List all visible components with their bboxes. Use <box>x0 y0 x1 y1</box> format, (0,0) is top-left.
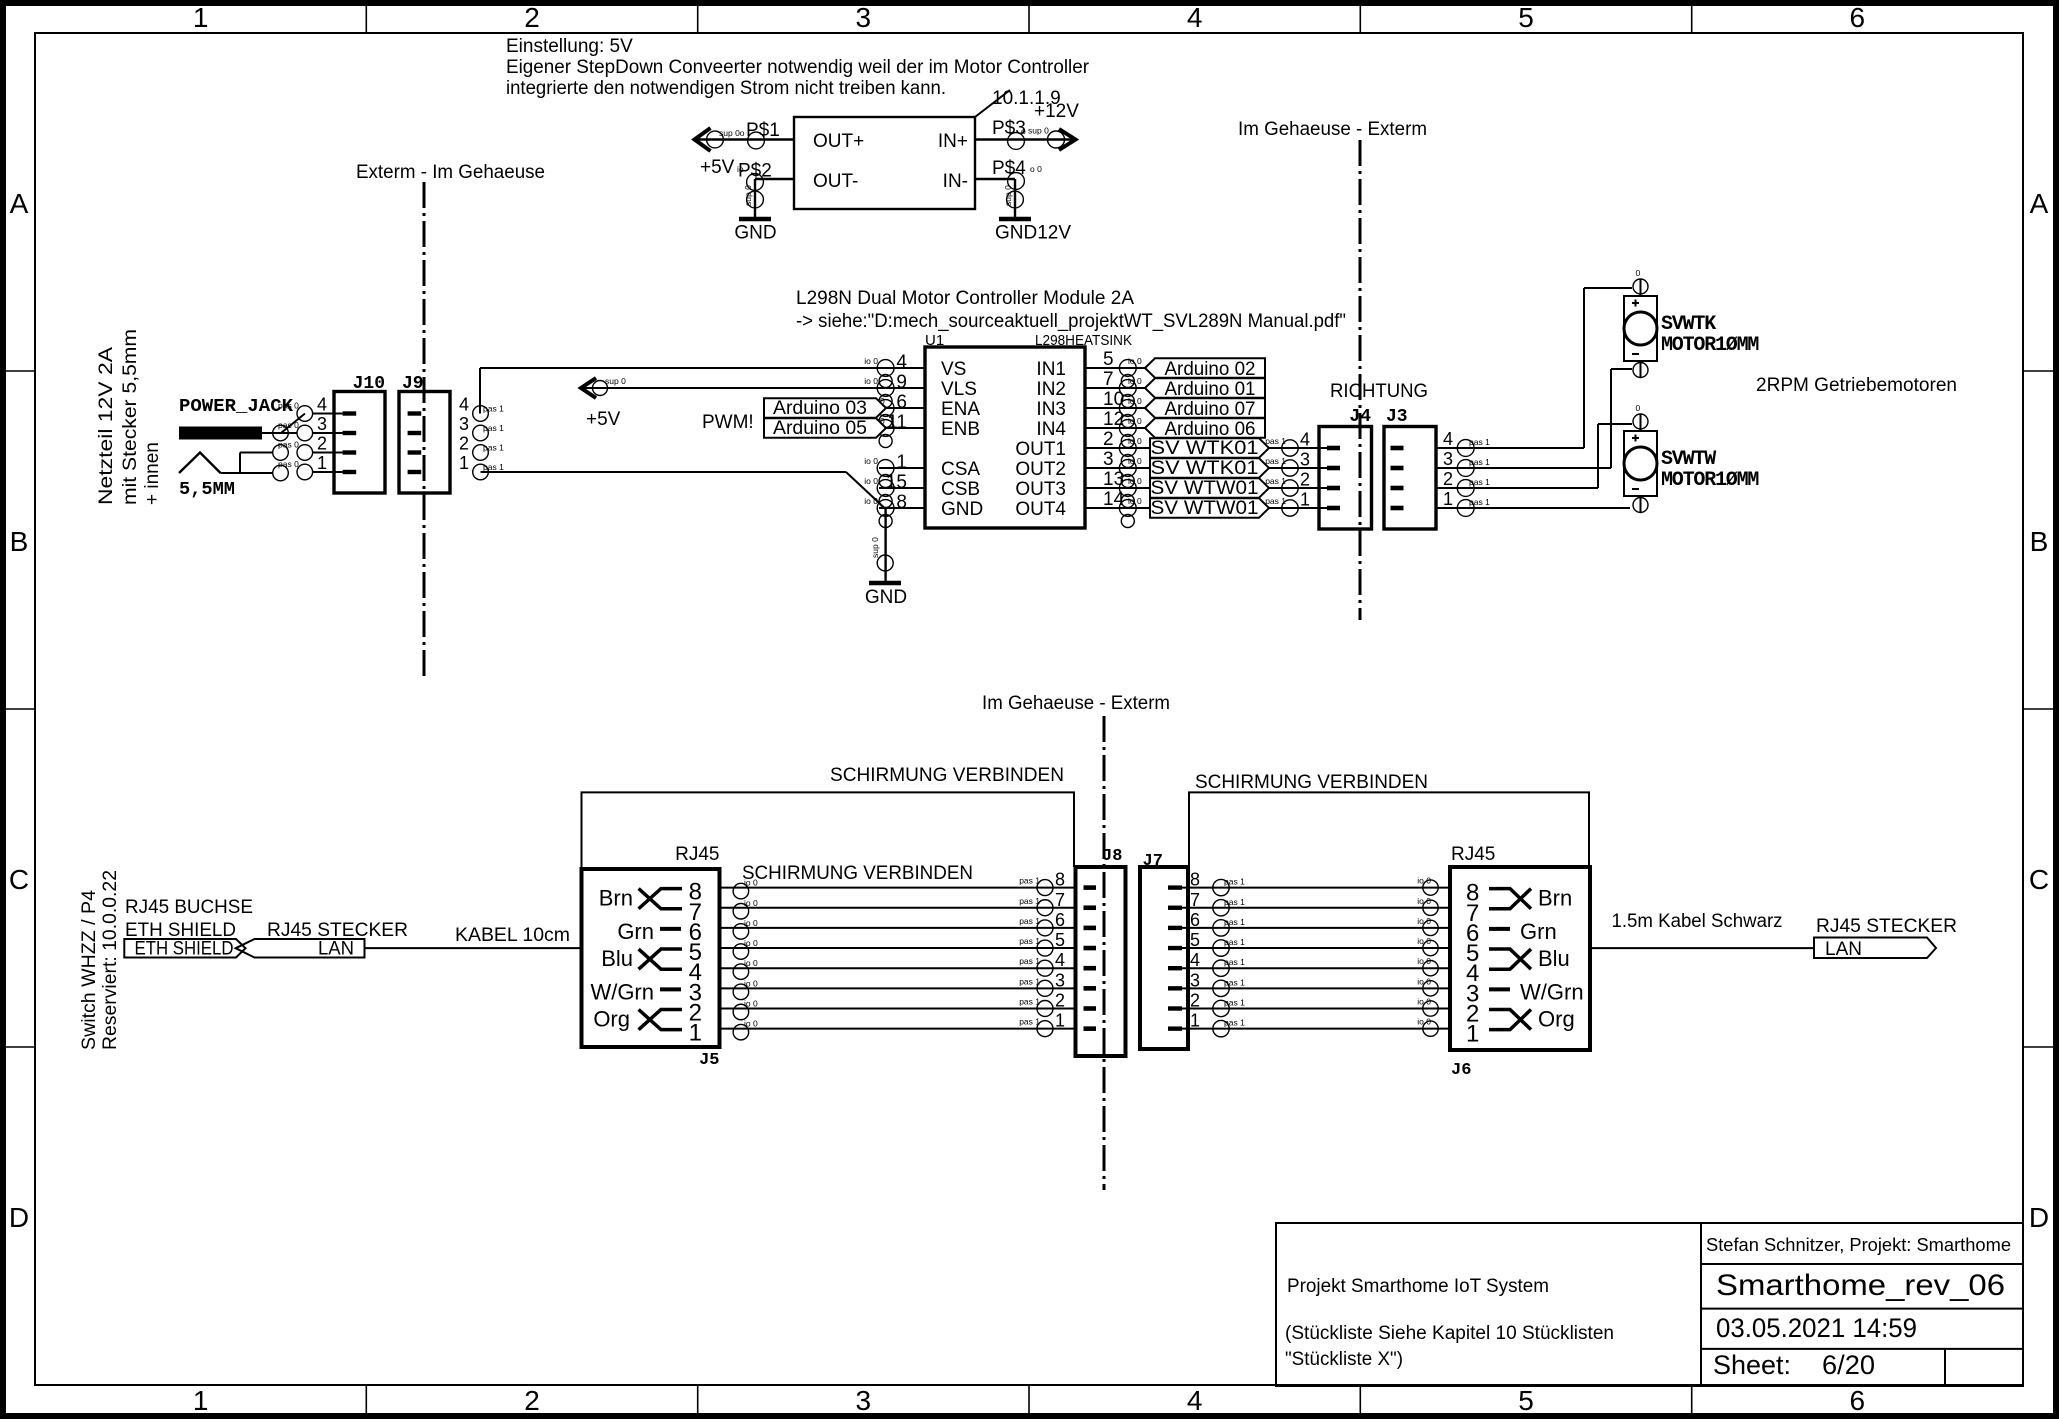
svg-text:4: 4 <box>459 395 469 415</box>
svg-text:pas 1: pas 1 <box>1224 1018 1245 1028</box>
svg-text:W/Grn: W/Grn <box>1520 979 1584 1004</box>
svg-text:+5V: +5V <box>700 157 735 178</box>
svg-text:6: 6 <box>1850 1385 1866 1416</box>
svg-text:W/Grn: W/Grn <box>590 979 654 1004</box>
svg-text:IN3: IN3 <box>1036 399 1066 420</box>
svg-text:io 0: io 0 <box>1128 436 1142 446</box>
svg-text:CSA: CSA <box>941 459 980 480</box>
svg-text:io 0: io 0 <box>744 878 758 888</box>
svg-text:4: 4 <box>317 395 327 415</box>
svg-text:03.05.2021 14:59: 03.05.2021 14:59 <box>1716 1313 1917 1343</box>
svg-text:4: 4 <box>1187 1385 1203 1416</box>
svg-text:pas 1: pas 1 <box>1224 957 1245 967</box>
svg-text:0: 0 <box>1636 403 1641 413</box>
svg-text:9: 9 <box>896 372 907 393</box>
svg-text:J6: J6 <box>1451 1061 1471 1080</box>
svg-text:pas 1: pas 1 <box>1224 917 1245 927</box>
svg-text:MOTOR1ØMM: MOTOR1ØMM <box>1661 469 1759 492</box>
svg-text:A: A <box>2030 188 2049 219</box>
svg-text:io 0: io 0 <box>864 476 878 486</box>
svg-text:io 0: io 0 <box>1128 416 1142 426</box>
svg-text:pas 1: pas 1 <box>1265 436 1286 446</box>
svg-text:5: 5 <box>1055 930 1065 950</box>
svg-text:0: 0 <box>1636 268 1641 278</box>
svg-text:pas 1: pas 1 <box>483 462 504 472</box>
svg-text:Smarthome_rev_06: Smarthome_rev_06 <box>1716 1269 2005 1302</box>
svg-text:6: 6 <box>1850 2 1866 33</box>
svg-text:Netzteil 12V 2A: Netzteil 12V 2A <box>96 347 117 505</box>
svg-text:Reserviert: 10.0.0.22: Reserviert: 10.0.0.22 <box>100 870 121 1050</box>
svg-text:io 0: io 0 <box>744 938 758 948</box>
svg-text:IN4: IN4 <box>1036 419 1066 440</box>
svg-text:+12V: +12V <box>1034 101 1079 122</box>
svg-text:RJ45 BUCHSE: RJ45 BUCHSE <box>125 897 253 918</box>
svg-text:4: 4 <box>1190 950 1200 970</box>
svg-text:sup 0: sup 0 <box>605 376 626 386</box>
svg-text:8: 8 <box>1055 870 1065 890</box>
svg-text:pas 1: pas 1 <box>1224 977 1245 987</box>
svg-text:Brn: Brn <box>1538 886 1572 911</box>
svg-text:2: 2 <box>459 434 469 454</box>
svg-text:SV WTK01: SV WTK01 <box>1151 458 1259 479</box>
svg-text:RJ45 STECKER: RJ45 STECKER <box>1816 916 1957 937</box>
svg-text:1.5m Kabel Schwarz: 1.5m Kabel Schwarz <box>1612 911 1783 932</box>
svg-text:1: 1 <box>317 453 327 473</box>
svg-text:PWM!: PWM! <box>702 412 754 433</box>
svg-text:mit Stecker 5,5mm: mit Stecker 5,5mm <box>120 329 141 505</box>
svg-text:P$1: P$1 <box>746 120 780 141</box>
svg-text:4: 4 <box>1187 2 1203 33</box>
svg-text:B: B <box>10 526 29 557</box>
svg-text:1: 1 <box>1300 490 1310 510</box>
svg-text:sup 0o: sup 0o <box>719 128 745 138</box>
svg-text:2: 2 <box>1055 991 1065 1011</box>
svg-text:pas 0: pas 0 <box>278 420 299 430</box>
svg-text:io 0: io 0 <box>1128 356 1142 366</box>
svg-text:pas 1: pas 1 <box>483 423 504 433</box>
svg-text:3: 3 <box>459 414 469 434</box>
svg-text:B: B <box>2030 526 2049 557</box>
svg-text:15: 15 <box>886 472 907 493</box>
svg-text:Im Gehaeuse - Exterm: Im Gehaeuse - Exterm <box>982 693 1170 714</box>
svg-text:6/20: 6/20 <box>1822 1350 1875 1380</box>
svg-text:2: 2 <box>524 2 540 33</box>
svg-text:J8: J8 <box>1102 847 1122 866</box>
svg-text:A: A <box>10 188 29 219</box>
svg-text:-> siehe:"D:mech_sourceaktuell: -> siehe:"D:mech_sourceaktuell_projektWT… <box>796 311 1346 332</box>
svg-text:io: io <box>737 164 744 174</box>
svg-text:SV WTK01: SV WTK01 <box>1151 438 1259 459</box>
svg-text:SVWTW: SVWTW <box>1661 448 1716 471</box>
svg-text:OUT4: OUT4 <box>1015 499 1066 520</box>
svg-text:(Stückliste Siehe Kapitel 10 S: (Stückliste Siehe Kapitel 10 Stücklisten <box>1285 1323 1614 1344</box>
svg-text:3: 3 <box>317 414 327 434</box>
svg-text:OUT1: OUT1 <box>1015 439 1066 460</box>
svg-text:sup 0: sup 0 <box>870 537 880 558</box>
svg-text:11: 11 <box>887 412 907 433</box>
svg-text:io 0: io 0 <box>744 958 758 968</box>
svg-text:pas 1: pas 1 <box>1224 998 1245 1008</box>
svg-text:Sheet:: Sheet: <box>1713 1350 1791 1380</box>
svg-text:io 0: io 0 <box>1128 376 1142 386</box>
svg-text:Arduino 05: Arduino 05 <box>773 418 867 439</box>
svg-text:Grn: Grn <box>1520 919 1557 944</box>
svg-text:2: 2 <box>524 1385 540 1416</box>
svg-text:SCHIRMUNG VERBINDEN: SCHIRMUNG VERBINDEN <box>1195 772 1428 793</box>
svg-text:io 0: io 0 <box>744 1019 758 1029</box>
svg-text:2: 2 <box>1190 991 1200 1011</box>
svg-text:pas 1: pas 1 <box>1265 496 1286 506</box>
svg-text:pas 0: pas 0 <box>278 440 299 450</box>
svg-text:pas 1: pas 1 <box>1469 477 1490 487</box>
svg-text:2: 2 <box>1300 470 1310 490</box>
svg-text:6: 6 <box>1055 910 1065 930</box>
svg-text:OUT-: OUT- <box>813 171 858 192</box>
svg-text:P$4: P$4 <box>992 158 1026 179</box>
svg-text:0: 0 <box>880 396 885 406</box>
svg-text:C: C <box>2029 864 2049 895</box>
svg-text:pas 0: pas 0 <box>278 401 299 411</box>
svg-text:o: o <box>1021 126 1026 136</box>
svg-text:13: 13 <box>1103 469 1124 490</box>
svg-text:pas 1: pas 1 <box>483 404 504 414</box>
svg-text:J3: J3 <box>1386 407 1408 427</box>
svg-text:Blu: Blu <box>601 946 633 971</box>
svg-text:SCHIRMUNG VERBINDEN: SCHIRMUNG VERBINDEN <box>742 863 973 884</box>
svg-text:pas 1: pas 1 <box>1224 877 1245 887</box>
svg-text:GND12V: GND12V <box>995 223 1071 244</box>
svg-text:RICHTUNG: RICHTUNG <box>1330 381 1428 402</box>
svg-text:3: 3 <box>856 1385 872 1416</box>
svg-text:Eigener StepDown Conveerter no: Eigener StepDown Conveerter notwendig we… <box>506 57 1090 78</box>
svg-text:8: 8 <box>689 879 702 906</box>
svg-text:D: D <box>9 1202 29 1233</box>
svg-text:pas 1: pas 1 <box>1265 476 1286 486</box>
svg-text:1: 1 <box>1443 489 1453 509</box>
svg-text:2: 2 <box>317 434 327 454</box>
svg-text:io 0: io 0 <box>1128 496 1142 506</box>
svg-text:Exterm - Im Gehaeuse: Exterm - Im Gehaeuse <box>356 162 545 183</box>
svg-text:io 0: io 0 <box>744 978 758 988</box>
svg-text:GND: GND <box>734 223 776 244</box>
svg-text:1: 1 <box>459 453 469 473</box>
svg-text:3: 3 <box>856 2 872 33</box>
svg-text:RJ45: RJ45 <box>1451 844 1495 865</box>
svg-text:C: C <box>9 864 29 895</box>
svg-text:GND: GND <box>941 499 983 520</box>
svg-text:SCHIRMUNG VERBINDEN: SCHIRMUNG VERBINDEN <box>830 765 1064 786</box>
svg-text:5: 5 <box>1190 930 1200 950</box>
svg-text:io 0: io 0 <box>1128 456 1142 466</box>
svg-text:+5V: +5V <box>586 409 621 430</box>
svg-text:pas 0: pas 0 <box>278 459 299 469</box>
svg-text:3: 3 <box>1055 970 1065 990</box>
svg-text:7: 7 <box>1103 369 1114 390</box>
svg-text:10: 10 <box>1103 389 1124 410</box>
svg-text:Arduino 02: Arduino 02 <box>1165 359 1256 380</box>
svg-text:Arduino 06: Arduino 06 <box>1165 419 1256 440</box>
svg-text:4: 4 <box>1300 430 1310 450</box>
svg-text:Arduino 07: Arduino 07 <box>1165 399 1256 420</box>
svg-text:OUT2: OUT2 <box>1015 459 1066 480</box>
svg-text:7: 7 <box>1055 890 1065 910</box>
svg-text:io 0: io 0 <box>864 356 878 366</box>
svg-text:io 0: io 0 <box>1128 476 1142 486</box>
svg-text:5,5MM: 5,5MM <box>179 480 235 500</box>
svg-text:OUT+: OUT+ <box>813 131 864 152</box>
svg-text:OUT3: OUT3 <box>1015 479 1066 500</box>
svg-text:8: 8 <box>1190 870 1200 890</box>
svg-text:5: 5 <box>1103 349 1114 370</box>
svg-text:pas 1: pas 1 <box>1265 456 1286 466</box>
svg-text:MOTOR1ØMM: MOTOR1ØMM <box>1661 334 1759 357</box>
svg-text:Einstellung: 5V: Einstellung: 5V <box>506 36 633 57</box>
svg-text:6: 6 <box>1190 910 1200 930</box>
svg-text:IN1: IN1 <box>1036 359 1066 380</box>
svg-text:Arduino 01: Arduino 01 <box>1165 379 1256 400</box>
svg-text:KABEL 10cm: KABEL 10cm <box>455 925 570 946</box>
svg-text:1: 1 <box>1190 1011 1200 1031</box>
svg-text:4: 4 <box>1055 950 1065 970</box>
svg-text:Org: Org <box>1538 1007 1575 1032</box>
svg-text:4: 4 <box>896 352 907 373</box>
svg-text:SV WTW01: SV WTW01 <box>1151 478 1259 499</box>
svg-text:J5: J5 <box>699 1051 719 1070</box>
svg-text:io 0: io 0 <box>744 999 758 1009</box>
svg-text:12: 12 <box>1103 409 1124 430</box>
svg-text:o 0: o 0 <box>1030 164 1042 174</box>
svg-text:sup 0: sup 0 <box>743 185 753 206</box>
svg-text:io 0: io 0 <box>744 918 758 928</box>
svg-text:2: 2 <box>1103 429 1114 450</box>
svg-text:IN+: IN+ <box>938 131 968 152</box>
svg-text:6: 6 <box>896 392 907 413</box>
svg-text:J4: J4 <box>1349 407 1371 427</box>
svg-text:8: 8 <box>896 492 907 513</box>
svg-text:3: 3 <box>1190 970 1200 990</box>
svg-text:IN-: IN- <box>943 171 968 192</box>
svg-text:pas 1: pas 1 <box>1469 457 1490 467</box>
svg-text:GND: GND <box>865 587 907 608</box>
svg-text:integrierte den notwendigen St: integrierte den notwendigen Strom nicht … <box>506 78 946 99</box>
svg-text:1: 1 <box>1055 1011 1065 1031</box>
svg-text:pas 1: pas 1 <box>483 443 504 453</box>
svg-text:pas 1: pas 1 <box>1469 437 1490 447</box>
svg-text:5: 5 <box>1518 2 1534 33</box>
svg-text:Switch WHZZ / P4: Switch WHZZ / P4 <box>79 890 100 1050</box>
svg-text:3: 3 <box>1443 449 1453 469</box>
svg-text:RJ45: RJ45 <box>675 844 719 865</box>
svg-text:CSB: CSB <box>941 479 980 500</box>
svg-text:Brn: Brn <box>599 886 633 911</box>
svg-text:pas 1: pas 1 <box>1224 897 1245 907</box>
svg-text:SVWTK: SVWTK <box>1661 313 1716 336</box>
svg-text:8: 8 <box>1466 880 1479 907</box>
svg-text:io 0: io 0 <box>864 376 878 386</box>
svg-text:pas 1: pas 1 <box>1469 497 1490 507</box>
svg-text:ENA: ENA <box>941 399 980 420</box>
svg-text:pas 1: pas 1 <box>1224 937 1245 947</box>
svg-text:LAN: LAN <box>1825 939 1862 960</box>
svg-text:1: 1 <box>896 452 907 473</box>
svg-text:5: 5 <box>1518 1385 1534 1416</box>
svg-text:VS: VS <box>941 359 966 380</box>
svg-text:4: 4 <box>1443 429 1453 449</box>
svg-text:D: D <box>2029 1202 2049 1233</box>
svg-text:ENB: ENB <box>941 419 980 440</box>
svg-text:Org: Org <box>593 1007 630 1032</box>
svg-text:SV WTW01: SV WTW01 <box>1151 498 1259 519</box>
svg-text:Blu: Blu <box>1538 946 1570 971</box>
svg-text:sup 0: sup 0 <box>1028 126 1049 136</box>
svg-text:7: 7 <box>1190 890 1200 910</box>
svg-text:IN2: IN2 <box>1036 379 1066 400</box>
svg-text:POWER_JACK: POWER_JACK <box>179 397 293 417</box>
svg-text:sup 0: sup 0 <box>1003 185 1013 206</box>
svg-text:1: 1 <box>193 1385 209 1416</box>
svg-text:io 0: io 0 <box>1128 396 1142 406</box>
svg-text:Grn: Grn <box>617 919 654 944</box>
svg-text:+ innen: + innen <box>142 442 163 505</box>
svg-text:0: 0 <box>880 416 885 426</box>
svg-text:3: 3 <box>1103 449 1114 470</box>
svg-text:L298N Dual Motor Controller Mo: L298N Dual Motor Controller Module 2A <box>796 288 1134 309</box>
svg-text:3: 3 <box>1300 450 1310 470</box>
svg-text:LAN: LAN <box>318 939 354 960</box>
svg-text:14: 14 <box>1103 489 1125 510</box>
svg-text:1: 1 <box>193 2 209 33</box>
svg-text:ETH SHIELD: ETH SHIELD <box>135 939 234 960</box>
svg-text:2: 2 <box>1443 469 1453 489</box>
svg-text:2RPM Getriebemotoren: 2RPM Getriebemotoren <box>1756 375 1957 396</box>
svg-text:io 0: io 0 <box>744 898 758 908</box>
svg-text:Im Gehaeuse - Exterm: Im Gehaeuse - Exterm <box>1238 119 1427 140</box>
svg-text:VLS: VLS <box>941 379 977 400</box>
svg-text:"Stückliste X"): "Stückliste X") <box>1285 1349 1403 1370</box>
svg-text:Projekt Smarthome IoT System: Projekt Smarthome IoT System <box>1287 1276 1549 1297</box>
svg-text:Arduino 03: Arduino 03 <box>773 398 867 419</box>
svg-text:Stefan Schnitzer, Projekt: Sma: Stefan Schnitzer, Projekt: Smarthome <box>1706 1235 2011 1255</box>
svg-text:io 0: io 0 <box>864 456 878 466</box>
